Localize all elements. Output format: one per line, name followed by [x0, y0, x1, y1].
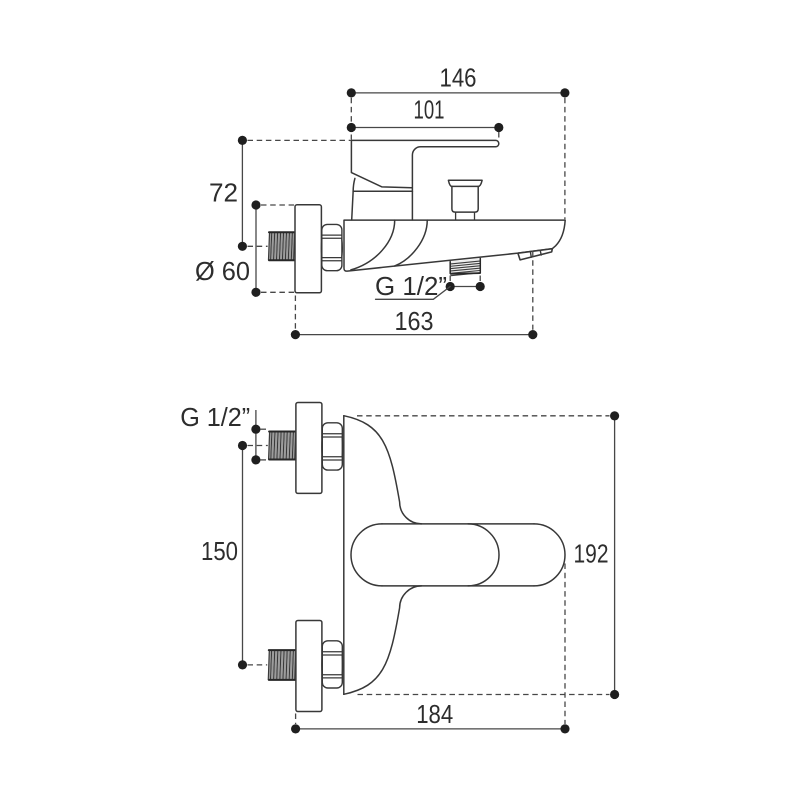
svg-text:G 1/2”: G 1/2” — [180, 402, 250, 432]
svg-text:101: 101 — [414, 95, 445, 125]
svg-text:163: 163 — [395, 306, 434, 336]
svg-text:192: 192 — [574, 538, 609, 568]
svg-text:146: 146 — [440, 63, 477, 93]
svg-text:150: 150 — [201, 536, 238, 566]
svg-text:Ø 60: Ø 60 — [195, 256, 250, 286]
svg-text:72: 72 — [209, 178, 238, 208]
svg-text:184: 184 — [416, 699, 453, 729]
